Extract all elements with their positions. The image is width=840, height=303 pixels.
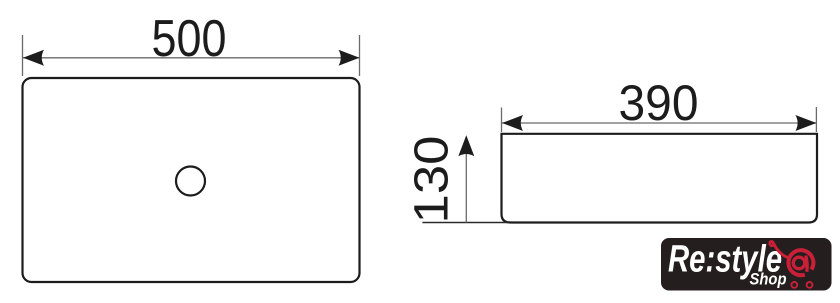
cart wheel right xyxy=(807,282,813,288)
extension line left (500) xyxy=(22,35,24,76)
arrow right (390) xyxy=(795,115,816,131)
basin side-view outline xyxy=(502,134,818,223)
extension line right (390) xyxy=(815,107,817,132)
bottom reference line xyxy=(422,222,508,224)
arrow right xyxy=(339,50,360,66)
svg-text:130: 130 xyxy=(406,136,459,224)
@ inner a bowl xyxy=(793,257,805,269)
cart handle xyxy=(770,241,788,257)
arrow left (390) xyxy=(502,115,523,131)
dimension line 500 xyxy=(23,57,359,59)
dimension line 390 xyxy=(502,122,816,124)
drain hole xyxy=(176,167,205,196)
@ inner a stem xyxy=(806,256,807,272)
logo @ cart symbol xyxy=(770,241,813,287)
logo black box xyxy=(661,238,832,291)
basin top-view outline xyxy=(23,78,360,282)
svg-text:500: 500 xyxy=(152,9,227,67)
extension line left (390) xyxy=(501,108,503,133)
extension line right (500) xyxy=(359,35,361,76)
svg-text:390: 390 xyxy=(619,75,699,131)
svg-text:Shop: Shop xyxy=(750,271,787,289)
@ outer ring with gap at bottom-right xyxy=(788,250,813,275)
arrow left xyxy=(23,50,44,66)
dimension line 130 (vertical) xyxy=(465,137,467,223)
arrow up (130) xyxy=(458,135,474,156)
cart wheel left xyxy=(791,282,797,288)
